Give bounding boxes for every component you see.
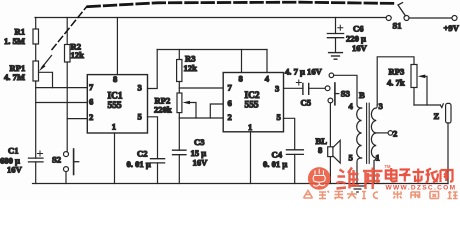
svg-text:C6: C6 [353, 24, 364, 34]
earphone jack Z [440, 103, 451, 183]
watermark logo [304, 164, 458, 199]
resistor R2 [65, 18, 71, 152]
wire RP2 to C3 [178, 118, 180, 150]
capacitor C6 [327, 18, 343, 53]
svg-text:16V: 16V [352, 43, 368, 53]
svg-text:C3: C3 [194, 137, 205, 147]
wire S3 to speaker [329, 103, 331, 147]
potentiometer RP2 [177, 93, 196, 118]
wire IC2 pin5 [284, 118, 295, 150]
svg-text:8: 8 [318, 145, 323, 155]
wire IC2 pin8 drop [241, 50, 243, 73]
电子市场网 faux glyphs [386, 168, 453, 183]
wire IC1 pin5 [148, 117, 158, 159]
svg-text:3: 3 [379, 101, 383, 111]
mechanical link dashed line RP1-S1 [52, 2, 394, 49]
ground symbol at transformer [351, 186, 365, 192]
wire IC1 pin3 output [148, 50, 158, 89]
wire secondary tap to terminal 2 [376, 131, 392, 136]
svg-text:R1: R1 [15, 27, 26, 37]
svg-text:2: 2 [89, 112, 93, 122]
wire IC1 pin2 [67, 118, 87, 120]
transformer B primary winding [357, 108, 362, 184]
svg-text:6: 6 [228, 98, 233, 108]
svg-text:555: 555 [108, 101, 122, 111]
svg-text:4. 7M: 4. 7M [4, 72, 25, 82]
svg-text:+9V: +9V [444, 23, 460, 33]
wire IC2 pin3 output [284, 87, 303, 89]
svg-text:S1: S1 [393, 21, 402, 31]
svg-text:2: 2 [393, 129, 397, 139]
svg-text:RP3: RP3 [389, 67, 405, 77]
svg-text:1: 1 [376, 153, 380, 163]
svg-text:555: 555 [245, 101, 259, 111]
svg-text:12k: 12k [71, 50, 85, 60]
capacitor C2 [151, 159, 165, 184]
svg-text:WWW.DZSC.COM: WWW.DZSC.COM [386, 184, 457, 191]
svg-text:15 μ: 15 μ [191, 148, 207, 158]
svg-text:S3: S3 [341, 89, 350, 99]
svg-text:8: 8 [239, 73, 244, 83]
ground symbol below C6 [329, 53, 343, 60]
bottom orange row faux glyphs [304, 191, 458, 200]
svg-text:1: 1 [112, 122, 116, 132]
svg-text:1. 5M: 1. 5M [4, 36, 25, 46]
node +9V terminal [452, 16, 457, 21]
capacitor C5 [296, 80, 325, 94]
resistor R3 [177, 50, 182, 94]
wire mid rail from IC1 pin3 [157, 49, 267, 51]
svg-text:7: 7 [89, 82, 94, 92]
svg-text:8: 8 [113, 74, 118, 84]
wire IC2 pin4 drop [266, 50, 268, 73]
switch S1 [386, 3, 409, 21]
wire secondary top to RP3 [377, 57, 414, 105]
svg-text:C2: C2 [137, 149, 148, 159]
svg-text:4: 4 [265, 73, 270, 83]
svg-text:C1: C1 [8, 146, 19, 156]
svg-text:C4: C4 [272, 150, 283, 160]
维库 outlined characters (faux glyphs) [337, 168, 383, 190]
wire IC1 pin8 to rail [116, 18, 118, 75]
switch S2 [64, 149, 79, 184]
svg-text:2: 2 [228, 112, 232, 122]
transformer B core [367, 103, 370, 163]
svg-text:3: 3 [138, 83, 142, 93]
capacitor C4 [286, 150, 303, 184]
svg-text:4. 7 μ 16V: 4. 7 μ 16V [285, 67, 323, 77]
potentiometer RP3 [411, 65, 440, 106]
capacitor C1 [29, 151, 44, 184]
svg-text:B: B [359, 90, 365, 100]
svg-text:5: 5 [349, 153, 353, 163]
capacitor C3 [173, 150, 187, 183]
svg-text:R3: R3 [185, 54, 196, 64]
svg-text:220k: 220k [154, 105, 172, 115]
svg-text:C5: C5 [301, 98, 312, 108]
svg-text:6: 6 [89, 97, 94, 107]
svg-text:Z: Z [434, 111, 440, 121]
wire RP2/IC2 pins 2+6 [179, 104, 223, 118]
wire bottom ground rail [33, 183, 449, 185]
speaker BL [328, 140, 341, 183]
svg-text:IC2: IC2 [245, 91, 260, 101]
wire IC2 pin7 [179, 87, 223, 89]
svg-text:5: 5 [277, 112, 281, 122]
svg-text:4. 7k: 4. 7k [387, 78, 405, 88]
svg-text:5: 5 [138, 111, 142, 121]
potentiometer RP1 [33, 56, 53, 88]
wire S3 to transformer primary top [334, 75, 362, 108]
wire IC1 pin7 [36, 87, 88, 89]
transformer B secondary winding [371, 105, 377, 184]
wire IC2 pin1 to ground [250, 132, 252, 184]
svg-text:4: 4 [349, 101, 354, 111]
wire top +9V rail [35, 17, 386, 19]
switch S3 [325, 73, 339, 105]
wire IC1 pin6 [36, 102, 88, 104]
IC U1: IC1 555 timer [87, 75, 147, 133]
svg-text:0. 01 μ: 0. 01 μ [263, 159, 287, 169]
svg-text:16V: 16V [7, 165, 23, 175]
svg-text:3: 3 [275, 83, 279, 93]
IC U2: IC2 555 timer [223, 73, 283, 132]
svg-text:TM: TM [385, 164, 392, 169]
svg-text:220 μ: 220 μ [346, 34, 366, 44]
wire RP1 to C1 [35, 81, 37, 158]
wire S1 to +9V terminal [409, 17, 452, 19]
svg-text:IC1: IC1 [108, 92, 123, 102]
svg-text:0. 01 μ: 0. 01 μ [127, 159, 151, 169]
svg-text:16V: 16V [193, 158, 209, 168]
wire IC1 pin1 to ground [114, 133, 116, 184]
svg-text:S2: S2 [52, 155, 61, 165]
svg-text:12k: 12k [184, 63, 198, 73]
resistor R1 [33, 18, 39, 62]
icon circle [308, 167, 331, 190]
svg-text:7: 7 [228, 82, 233, 92]
svg-text:1: 1 [248, 122, 252, 132]
